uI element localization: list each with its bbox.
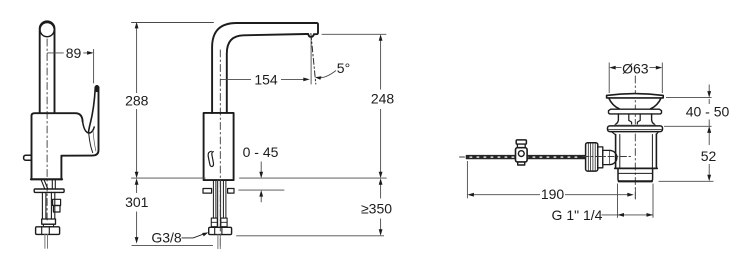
rod centerline stub bbox=[460, 156, 465, 158]
dimension 248 bbox=[322, 34, 395, 178]
label G3/8 bbox=[151, 230, 208, 246]
horizontal centerline bbox=[583, 156, 631, 158]
svg-text:0 - 45: 0 - 45 bbox=[243, 144, 279, 160]
flare right bbox=[651, 98, 661, 109]
dimension 52 bbox=[659, 126, 717, 181]
svg-text:190: 190 bbox=[541, 186, 565, 202]
aerator stub bbox=[24, 155, 32, 160]
svg-text:248: 248 bbox=[371, 91, 395, 107]
stud end blocks bbox=[211, 218, 217, 227]
svg-text:5°: 5° bbox=[337, 60, 350, 76]
drain body walls bbox=[616, 134, 657, 168]
svg-text:89: 89 bbox=[66, 45, 82, 61]
deck nuts bbox=[203, 189, 212, 194]
seat plate bbox=[608, 126, 663, 132]
L spout tube outline bbox=[212, 23, 318, 113]
clevis body bbox=[516, 148, 528, 162]
svg-text:≥350: ≥350 bbox=[361, 201, 392, 217]
svg-text:301: 301 bbox=[125, 194, 149, 210]
centerline bbox=[46, 39, 48, 222]
svg-text:288: 288 bbox=[125, 93, 149, 109]
hose bbox=[218, 181, 221, 228]
body bottom bbox=[615, 167, 657, 169]
spool bbox=[615, 114, 655, 126]
knurled nut bbox=[586, 143, 598, 171]
supply pipe below nut bbox=[218, 235, 220, 249]
clevis bottom tab bbox=[518, 162, 525, 165]
handle blade bbox=[61, 87, 98, 157]
svg-text:Ø63: Ø63 bbox=[622, 61, 649, 77]
svg-text:52: 52 bbox=[701, 148, 717, 164]
deck top line bbox=[132, 177, 387, 179]
supply nut bbox=[36, 227, 60, 235]
svg-text:40 - 50: 40 - 50 bbox=[686, 104, 730, 120]
side boxes bbox=[53, 199, 61, 205]
coupling bbox=[42, 219, 56, 224]
G3/8 nut bbox=[209, 227, 232, 234]
link block bbox=[598, 147, 603, 168]
tube end circle bbox=[40, 22, 54, 36]
shank tubes bbox=[42, 192, 54, 219]
dimension >=350 bbox=[236, 178, 392, 236]
dimension G 1" 1/4 bbox=[552, 184, 653, 223]
dimension 288 bbox=[125, 22, 149, 178]
washer band bbox=[616, 124, 654, 126]
dimension 190 bbox=[467, 161, 635, 202]
svg-text:154: 154 bbox=[254, 71, 278, 87]
dimension 5 deg bbox=[315, 60, 350, 80]
handle scoop bbox=[83, 122, 95, 134]
tailpiece bbox=[618, 168, 653, 181]
flare left bbox=[609, 98, 619, 109]
stopper cap bbox=[607, 94, 664, 98]
dimension diameter 63 bbox=[609, 61, 662, 94]
dimension 301 bbox=[125, 178, 213, 245]
ball end bbox=[610, 150, 617, 164]
link neck bbox=[603, 150, 610, 164]
drain vertical centerline bbox=[634, 76, 636, 199]
ring flange bbox=[609, 109, 662, 114]
body shoulders bbox=[612, 132, 659, 135]
pull rod bbox=[466, 155, 586, 159]
dimension 40 - 50 bbox=[664, 85, 730, 177]
body bbox=[32, 113, 83, 179]
spout axis 5 deg tilted line bbox=[311, 34, 316, 85]
288 top extension line bbox=[132, 22, 214, 24]
svg-text:G 1" 1/4: G 1" 1/4 bbox=[552, 207, 603, 223]
spout tube side view bbox=[40, 21, 55, 113]
deck bottom line bbox=[239, 189, 284, 191]
dimension 154 bbox=[220, 71, 309, 87]
studs below deck bbox=[213, 181, 226, 219]
dimension 89 bbox=[47, 45, 94, 83]
centerline bbox=[219, 50, 221, 247]
clevis top cap bbox=[516, 140, 526, 144]
svg-text:G3/8: G3/8 bbox=[151, 230, 182, 246]
body bbox=[204, 113, 234, 180]
clevis hole bbox=[518, 151, 524, 157]
spout axis vertical line bbox=[310, 38, 312, 85]
supply pipe bbox=[45, 234, 48, 248]
lever hook bbox=[208, 151, 213, 166]
dimension 0 - 45 bbox=[243, 144, 279, 202]
escutcheon flange bbox=[34, 189, 64, 192]
clevis neck bbox=[517, 144, 525, 148]
supply tails (slanted) bbox=[41, 180, 48, 189]
